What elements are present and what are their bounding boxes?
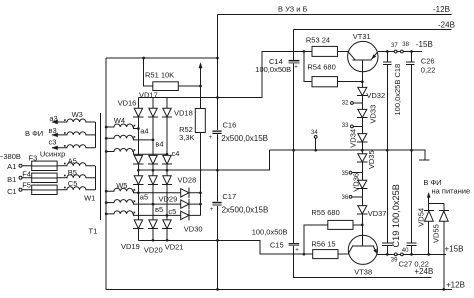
node W4 start dot c4	[134, 149, 136, 151]
svg-text:VD32: VD32	[366, 91, 385, 100]
diode VD55	[439, 211, 448, 221]
wire C1 to F5 and W1 row C5	[22, 187, 95, 190]
svg-text:R51 10K: R51 10K	[145, 70, 174, 79]
node arrow В ФИ a3	[51, 120, 58, 124]
svg-text:c5: c5	[168, 207, 176, 216]
wire C14-C15 vertical upper segment (from -24V bus)	[293, 30, 295, 60]
wire +15V rail	[378, 253, 446, 255]
wire A1 to F3 and W1 row A5	[22, 163, 95, 166]
diode VD28	[181, 189, 189, 197]
resistor R55	[328, 220, 353, 229]
terminal C1	[19, 188, 22, 191]
svg-text:VD35: VD35	[367, 150, 376, 169]
svg-text:33: 33	[342, 123, 349, 129]
svg-text:34: 34	[311, 130, 318, 136]
svg-text:100,0x25В C18: 100,0x25В C18	[393, 64, 402, 116]
svg-text:-24В: -24В	[438, 20, 455, 29]
svg-text:-15В: -15В	[416, 40, 433, 49]
wire phase column 2	[152, 98, 154, 241]
capacitor C17	[212, 201, 224, 206]
wire left vertical x=106 (winding common)	[105, 58, 107, 289]
svg-text:38: 38	[402, 42, 409, 48]
node W4 start dot в4	[134, 136, 136, 138]
svg-text:VD21: VD21	[165, 243, 184, 252]
wire C14-C15 vertical middle segment	[293, 63, 295, 243]
svg-text:T1: T1	[89, 226, 98, 235]
wire C18 upper lead	[386, 52, 388, 62]
capacitor C15	[289, 243, 300, 244]
svg-text:VD18: VD18	[174, 108, 193, 117]
node arrow В ФИ в3	[51, 133, 58, 137]
svg-text:+: +	[295, 247, 299, 253]
svg-text:2x500,0x15В: 2x500,0x15В	[221, 134, 268, 143]
winding W4 row a4 with coil	[106, 124, 138, 128]
node arrow up В ФИ на питание	[427, 192, 431, 198]
diode VD32	[358, 87, 367, 95]
node W3 start dot c3	[64, 145, 66, 147]
wire terminal 36 stub	[352, 196, 362, 198]
diode row3 col1	[134, 176, 142, 185]
capacitor C19	[382, 243, 392, 245]
wire C27 bottom lead	[411, 245, 413, 254]
wire -24V bus	[294, 29, 452, 31]
ground	[419, 159, 430, 161]
resistor R51	[153, 82, 179, 91]
capacitor C18	[383, 62, 391, 64]
svg-text:на питание: на питание	[432, 187, 471, 196]
terminal 34	[314, 136, 317, 139]
winding W4 row c4 with coil	[106, 149, 167, 155]
diode row3 col3	[163, 176, 171, 185]
wire rectifier bottom bus to VT38 base network	[138, 240, 348, 254]
wire phase column 3	[166, 98, 168, 241]
winding W5 row c5 with coil	[106, 211, 200, 215]
wire VD54/VD55 feed with up arrow (В ФИ на питание)	[429, 194, 444, 204]
capacitor C26	[406, 62, 414, 64]
wire arrow node / R52 / VD28-30 output x=200.5	[200, 64, 202, 216]
wire mid 0V bus y=150.2	[269, 150, 425, 160]
svg-text:a4: a4	[140, 126, 148, 135]
node W3 start dot в3	[64, 132, 66, 134]
svg-text:35: 35	[342, 171, 349, 177]
wire R54 right lead to VD32 chain	[338, 81, 363, 83]
svg-text:C26: C26	[421, 57, 435, 66]
wire center-tap bus y=170.2 with step up to mid bus	[138, 150, 269, 170]
wire terminal 34 stub	[315, 138, 317, 150]
node W5 start dot в5	[134, 200, 136, 202]
wire VT31 emitter to -15V	[378, 51, 422, 53]
svg-text:W4: W4	[114, 116, 125, 125]
svg-text:в5: в5	[155, 205, 163, 214]
svg-text:+: +	[210, 207, 214, 213]
svg-text:R54 680: R54 680	[307, 63, 335, 72]
terminal B1	[19, 176, 22, 179]
svg-text:VD55: VD55	[431, 224, 440, 243]
wire W3 right common	[94, 122, 96, 148]
wire B1 to F4 and W1 row B5	[22, 175, 95, 178]
svg-text:36: 36	[342, 195, 349, 201]
svg-text:37: 37	[391, 43, 398, 49]
node W1 start dot A5	[64, 163, 66, 165]
svg-text:B5: B5	[68, 168, 77, 177]
svg-text:c4: c4	[172, 149, 180, 158]
svg-text:c3: c3	[49, 138, 57, 147]
svg-text:C1: C1	[7, 187, 17, 196]
diode VD19	[134, 220, 142, 229]
svg-text:A5: A5	[68, 157, 77, 166]
wire rectifier top bus to R53 (wire A)	[138, 52, 347, 98]
svg-text:VD54: VD54	[417, 208, 426, 227]
winding W4 row в4 with coil	[106, 135, 153, 140]
wire C15 bottom to +24V rail	[294, 246, 432, 278]
diode row2 col3	[163, 155, 171, 164]
svg-text:VT31: VT31	[353, 32, 371, 41]
transformer T1 core	[99, 113, 101, 220]
svg-text:100,0x50В: 100,0x50В	[255, 65, 291, 74]
node arrow up at R51/R52 node	[199, 62, 203, 68]
resistor R56	[313, 250, 338, 259]
diode VD21	[163, 220, 171, 229]
capacitor C14	[289, 60, 300, 62]
terminal A1	[19, 164, 22, 167]
wire VD32..VD37 chain x=362.3	[361, 60, 363, 246]
fuse F5	[32, 185, 57, 194]
svg-text:39: 39	[391, 258, 398, 264]
diode VD37	[358, 206, 367, 214]
node W1 start dot C5	[64, 187, 66, 189]
diode VD33	[358, 109, 367, 117]
terminal 35	[349, 171, 352, 174]
wire R55 left lead	[304, 225, 328, 254]
wire terminal 35 stub	[352, 172, 362, 174]
node W4 start dot a4	[134, 125, 136, 127]
resistor R52	[195, 109, 205, 133]
svg-text:-12В: -12В	[433, 5, 450, 14]
svg-text:F3: F3	[29, 154, 38, 163]
svg-text:3,3K: 3,3K	[179, 133, 194, 142]
svg-text:В ФИ: В ФИ	[25, 129, 43, 138]
svg-text:в4: в4	[155, 139, 163, 148]
diode VD20	[149, 220, 157, 229]
winding W5 row a5 with coil	[106, 188, 200, 193]
wire C26-C27 middle lead	[411, 64, 413, 243]
diode row2 col1	[134, 155, 142, 164]
capacitor C27	[406, 243, 416, 245]
diode VD34	[358, 134, 367, 142]
transistor VT31	[348, 41, 378, 71]
svg-text:R53 24: R53 24	[306, 36, 330, 45]
wire common vertical x=217.5	[217, 14, 219, 289]
svg-text:B1: B1	[7, 175, 16, 184]
wire terminal 32 stub	[353, 102, 362, 104]
wire R54 branch from wire A down to R54	[304, 52, 312, 82]
node W1 start dot B5	[64, 175, 66, 177]
fuse F4	[32, 173, 57, 182]
svg-text:R56 15: R56 15	[311, 240, 335, 249]
wire phase column 1	[137, 98, 139, 241]
svg-text:Uсинхр: Uсинхр	[40, 149, 65, 158]
svg-text:В УЗ и Б: В УЗ и Б	[278, 5, 308, 14]
svg-text:в3: в3	[49, 126, 57, 135]
svg-text:+: +	[294, 64, 298, 70]
svg-text:R55 680: R55 680	[311, 208, 339, 217]
svg-text:+24В: +24В	[414, 267, 433, 276]
terminal 33	[351, 125, 354, 128]
diode VD29	[181, 200, 189, 208]
svg-text:C15: C15	[270, 240, 284, 249]
svg-text:VT38: VT38	[354, 267, 372, 276]
resistor R54	[312, 77, 338, 87]
svg-text:~380В: ~380В	[0, 152, 21, 161]
svg-text:+: +	[209, 135, 213, 141]
svg-text:a5: a5	[140, 193, 148, 202]
wire VD54 leads	[428, 204, 430, 255]
wire R51 left lead	[144, 58, 153, 86]
winding W3 row c3 with coil	[52, 145, 95, 148]
svg-text:VD37: VD37	[368, 209, 387, 218]
svg-text:VD20: VD20	[144, 246, 163, 255]
svg-text:VD17: VD17	[139, 90, 158, 99]
resistor R53	[312, 46, 338, 56]
svg-text:+12В: +12В	[446, 281, 465, 290]
svg-text:0,22: 0,22	[421, 66, 436, 75]
wire +12V bottom bus	[106, 288, 452, 290]
svg-text:40: 40	[402, 248, 409, 254]
wire C18-C19 middle lead	[386, 64, 388, 243]
wire VD55 leads	[443, 204, 445, 290]
svg-text:VD16: VD16	[118, 99, 137, 108]
node W3 start dot a3	[64, 119, 66, 121]
diode VD30	[181, 211, 189, 219]
wire R51 right lead	[178, 85, 200, 87]
capacitor C16	[212, 130, 224, 134]
terminal 40	[401, 253, 404, 256]
svg-text:a3: a3	[49, 114, 57, 123]
svg-text:100,0x50В: 100,0x50В	[252, 228, 288, 237]
node junction dots	[105, 50, 445, 291]
wire C26 upper lead	[411, 52, 413, 62]
terminal 38	[401, 50, 404, 53]
svg-text:VD34: VD34	[349, 129, 358, 148]
node arrow Uсинхр c3	[51, 146, 58, 150]
diode VD16	[134, 108, 142, 117]
terminal 37	[394, 50, 397, 53]
transistor VT38	[348, 235, 377, 264]
diode VD54	[425, 211, 434, 221]
svg-text:2x500,0x15В: 2x500,0x15В	[222, 206, 269, 215]
diode VD18	[163, 108, 171, 117]
svg-text:W1: W1	[84, 194, 95, 203]
node W5 start dot a5	[134, 189, 136, 191]
diode VD17	[149, 108, 157, 117]
svg-text:VD19: VD19	[121, 242, 140, 251]
svg-text:W5: W5	[116, 181, 127, 190]
svg-text:C19 100,0x25В: C19 100,0x25В	[391, 184, 401, 247]
svg-text:VD33: VD33	[369, 105, 378, 124]
svg-text:+15В: +15В	[445, 244, 464, 253]
svg-text:A1: A1	[7, 162, 16, 171]
svg-text:VD30: VD30	[184, 225, 203, 234]
terminal 32	[351, 102, 354, 105]
svg-text:F4: F4	[22, 169, 31, 178]
wire terminal 33 stub	[353, 125, 362, 127]
wire C19 bottom lead	[386, 245, 388, 254]
wire -12V bus (В УЗ и Б)	[218, 13, 452, 15]
node W5 start dot c5	[134, 212, 136, 214]
winding W3 row a3 with coil	[52, 119, 95, 122]
winding W3 row в3 with coil	[52, 132, 95, 135]
diode VD35	[358, 154, 367, 162]
fuse F3	[32, 161, 57, 170]
svg-text:C16: C16	[223, 120, 237, 129]
winding W5 row в5 with coil	[106, 200, 200, 204]
diode row2 col2	[149, 155, 157, 164]
svg-text:C5: C5	[68, 179, 78, 188]
svg-text:VD29: VD29	[159, 194, 178, 203]
diode row3 col2	[149, 176, 157, 185]
wire W1 right common	[94, 166, 96, 190]
terminal 36	[349, 195, 352, 198]
svg-text:W3: W3	[72, 110, 83, 119]
svg-text:F5: F5	[22, 181, 31, 190]
wire top link y=58	[106, 57, 217, 59]
wire R55 right lead	[353, 224, 362, 226]
diode VD36	[358, 180, 367, 188]
svg-text:C17: C17	[222, 192, 236, 201]
svg-text:32: 32	[342, 101, 349, 107]
svg-text:VD36: VD36	[352, 173, 361, 192]
svg-text:VD28: VD28	[178, 176, 197, 185]
terminal 39	[394, 253, 397, 256]
